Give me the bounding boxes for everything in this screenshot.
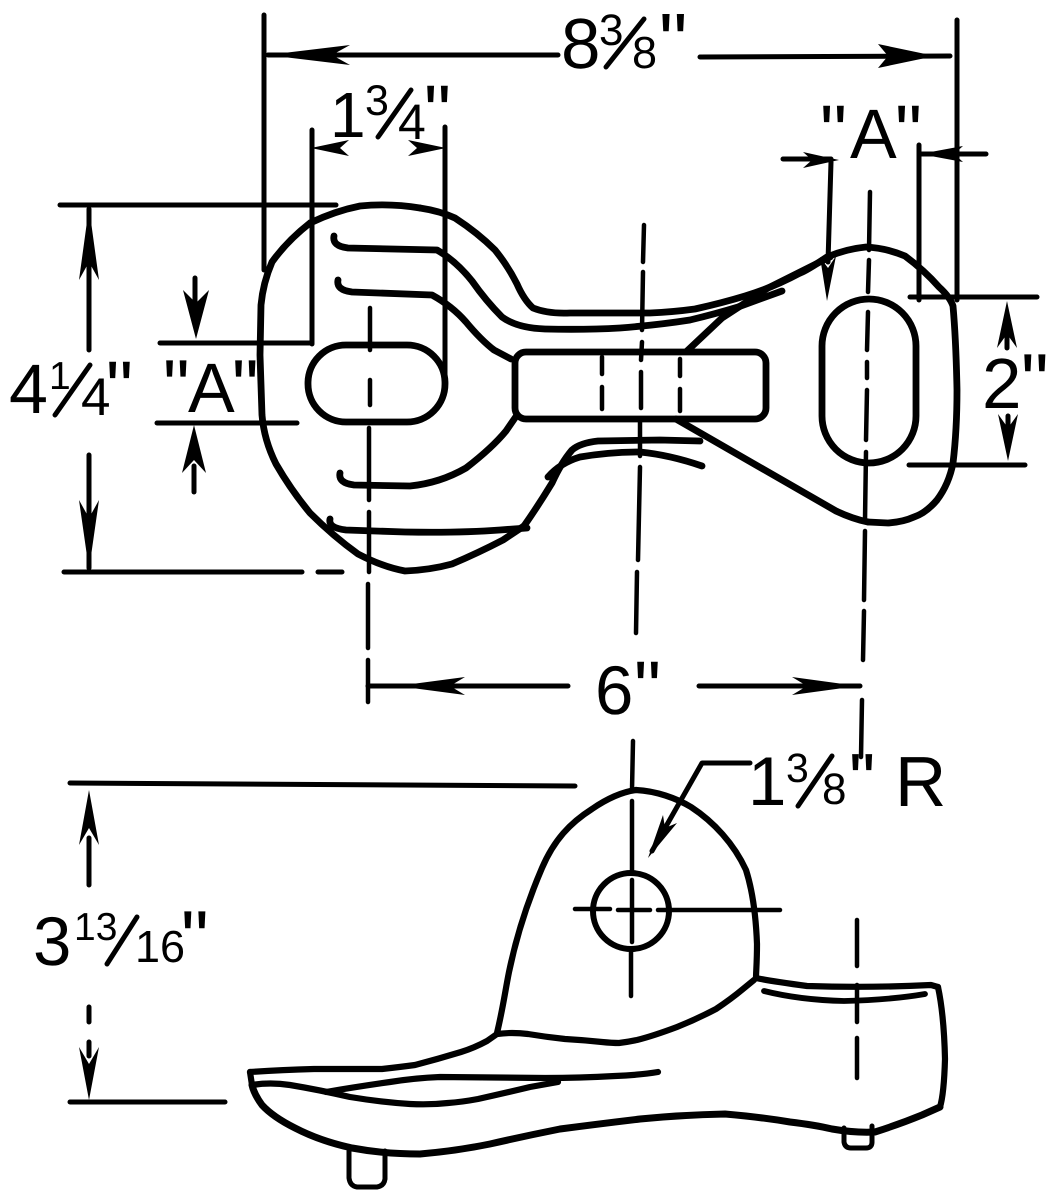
svg-text:A: A [188,349,235,427]
side view: right foot tab [844,1126,872,1148]
dimension 8-3/8: right extension line [955,20,960,300]
dimension 1-3/4: left extension line [310,130,315,344]
dimension A left: down arrowhead [183,290,209,339]
part outline: right lobe hump and right edge [800,247,957,523]
svg-text:16: 16 [135,921,185,972]
dimension 2 inch: extension lines [910,295,1037,300]
svg-text:13: 13 [74,906,117,949]
svg-text:": " [424,70,451,155]
inner forged edge: upper inner S-curve [334,236,782,329]
right vertical stadium hole in right lobe [822,299,916,463]
side view: inner top face edge (lower) [252,1082,558,1104]
svg-text:3: 3 [786,745,809,791]
lug hole horizontal centerline [575,909,780,910]
lug hole vertical centerline [631,880,632,996]
dimension 4-1/4: down arrowhead [79,500,99,570]
side view: dished top concave arc [764,991,925,1001]
inner forged edge: lower curve to slot corner [340,415,517,486]
svg-text:": " [181,894,209,982]
svg-text:": " [232,344,259,428]
block centerline dash-dot [855,920,860,1078]
svg-text:1: 1 [49,355,71,398]
dimension 8-3/8: left extension line [262,15,267,270]
dimension 8-3/8: left arrowhead [267,45,350,65]
dimension 8-3/8 inch: dimension line [268,55,950,57]
centerline middle (vertical dash-dot through slot down to side view) [632,225,644,870]
dimension 3-13/16: dimension line segments [87,838,92,1056]
inner forged edge: lower waist inner line [548,452,702,477]
dimension 3-13/16: down arrowhead [79,1047,99,1100]
svg-text:4: 4 [9,350,48,428]
dimension 2 inch: down arrowhead [998,414,1018,461]
dimension 4-1/4: dimension line segments [87,209,92,568]
leader arrowhead [648,815,677,858]
svg-text:1: 1 [748,743,786,820]
dimension 1-3/4: right arrowhead [408,140,446,156]
svg-text:": " [1021,337,1049,425]
dimension 2 inch: up arrowhead [997,301,1017,348]
side view: base plate top edge from left tip to block rim [250,980,754,1072]
svg-text:6: 6 [595,652,633,729]
dimension 8-3/8: right arrowhead [878,44,935,68]
svg-text:": " [849,738,875,821]
dimension A left: extension lines [160,341,312,346]
dimension 3-13/16: bottom extension line [70,1100,225,1105]
side view: block top rim [756,978,938,987]
dimension A right: left dimension line piece [783,157,831,162]
part outline: bottom saddle edge from left lobe to waist [524,440,700,526]
inner forged edge: lower left curve ending at outline [330,519,527,532]
dimension 6 inch: dimension line [368,684,860,689]
side view: blunt tip face [250,1072,252,1085]
dimension 1-3/4: left arrowhead [311,140,349,156]
svg-text:2: 2 [982,345,1022,424]
dimension A right: left extension line with down arrow [828,162,831,262]
dimension A left: up arrowhead [182,425,206,473]
dimension A right: left arrowhead [803,152,839,168]
part edge: top diagonal chamfer line [687,257,830,351]
dimension 2 inch: down arrow tail [1006,416,1011,432]
part outline: top saddle edge from left lobe to right lobe [420,208,800,313]
svg-text:8: 8 [632,27,657,78]
dimension 2 inch: up arrow tail [1005,330,1010,348]
dimension A right: right arrowhead [920,146,963,162]
svg-text:": " [634,646,661,731]
left stadium hole in left lobe [308,345,445,422]
dimension 6 inch: left arrowhead [397,677,465,695]
centerline of left hole (vertical dash-dot) [368,308,370,702]
svg-text:4: 4 [398,94,426,150]
svg-text:": " [163,344,190,428]
dimension 4-1/4: bottom extension line [64,570,342,575]
inner forged edge: upper curve to slot corner [338,280,511,359]
dimension 1-3/4: right extension line [443,127,448,388]
svg-text:3: 3 [365,77,389,125]
dimension A right: right dimension line piece [921,152,986,157]
side view: bottom edge of base [252,1085,940,1154]
svg-text:3: 3 [33,903,71,980]
short hidden dashes in slot right [678,359,683,411]
svg-text:": " [106,346,133,431]
side view: block right edge [938,987,945,1107]
dimension 4-1/4: top extension line [60,203,336,208]
short hidden dashes in slot left [600,357,605,409]
svg-text:8: 8 [822,765,846,814]
svg-text:1: 1 [330,79,366,151]
side view: inner top face edge (upper branch) [326,1072,658,1092]
part outline: left lobe of clamp body (top/plan view) [260,205,524,571]
dimension 3-13/16: up arrowhead [79,790,99,845]
dimension 4-1/4: up arrowhead [79,207,99,280]
centerline of right hole (vertical dash-dot) [861,192,870,757]
side view: lug dome right edge [636,790,757,978]
part outline: bottom diagonal edge to right lobe [676,419,868,522]
svg-text:R: R [895,743,946,822]
dimension 3-13/16: top extension line [70,783,575,786]
svg-text:8: 8 [561,5,601,84]
side view: lug left edge [497,790,636,1033]
side view: left foot tab [349,1151,385,1187]
dimension 6 inch: right arrowhead [792,677,858,695]
svg-text:A: A [850,95,897,173]
leader line for 1-3/8 R [652,763,750,851]
svg-text:": " [659,0,687,86]
hole in lug (1-3/8 R) [593,873,669,949]
dimension A left: up arrow tail [192,466,197,492]
dimension A left: down arrow tail [193,278,198,302]
middle slot rounded rectangle [515,352,766,419]
